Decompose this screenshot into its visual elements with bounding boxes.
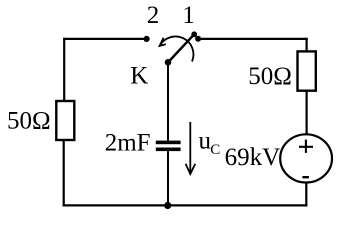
resistor R1 50 ohm (left) bbox=[56, 101, 74, 140]
switch contact 1 dot bbox=[195, 36, 201, 42]
source minus sign bbox=[302, 176, 309, 178]
wire left vertical lower bbox=[63, 140, 65, 206]
wire top-right segment bbox=[198, 38, 308, 40]
svg-text:50Ω: 50Ω bbox=[248, 63, 292, 90]
capacitor C 2mF bbox=[156, 141, 181, 152]
svg-text:50Ω: 50Ω bbox=[7, 107, 51, 134]
switch throw direction arrow bbox=[160, 36, 194, 61]
switch pivot dot bbox=[165, 59, 172, 66]
wire top-left segment bbox=[63, 38, 146, 40]
switch K arm bbox=[168, 34, 194, 62]
wire left vertical upper bbox=[63, 38, 65, 101]
switch arm end dot bbox=[191, 31, 197, 37]
wire bottom bbox=[63, 204, 308, 206]
wire right vertical lower bbox=[305, 182, 307, 207]
svg-text:69kV: 69kV bbox=[225, 144, 281, 171]
svg-text:2: 2 bbox=[147, 2, 160, 29]
voltage source U 69kV bbox=[280, 134, 332, 182]
junction node dot bbox=[164, 202, 171, 209]
svg-text:C: C bbox=[210, 142, 220, 158]
uC reference arrow bbox=[186, 122, 196, 174]
svg-text:2mF: 2mF bbox=[105, 130, 151, 157]
svg-text:K: K bbox=[130, 62, 148, 89]
svg-text:1: 1 bbox=[182, 2, 195, 29]
switch contact 2 dot bbox=[144, 36, 150, 42]
wire right vertical middle bbox=[306, 91, 308, 136]
wire middle vertical upper bbox=[167, 63, 169, 141]
source plus sign bbox=[299, 140, 313, 153]
wire right vertical upper bbox=[306, 38, 308, 52]
wire middle vertical lower bbox=[167, 151, 169, 205]
resistor R2 50 ohm (right) bbox=[298, 51, 316, 90]
